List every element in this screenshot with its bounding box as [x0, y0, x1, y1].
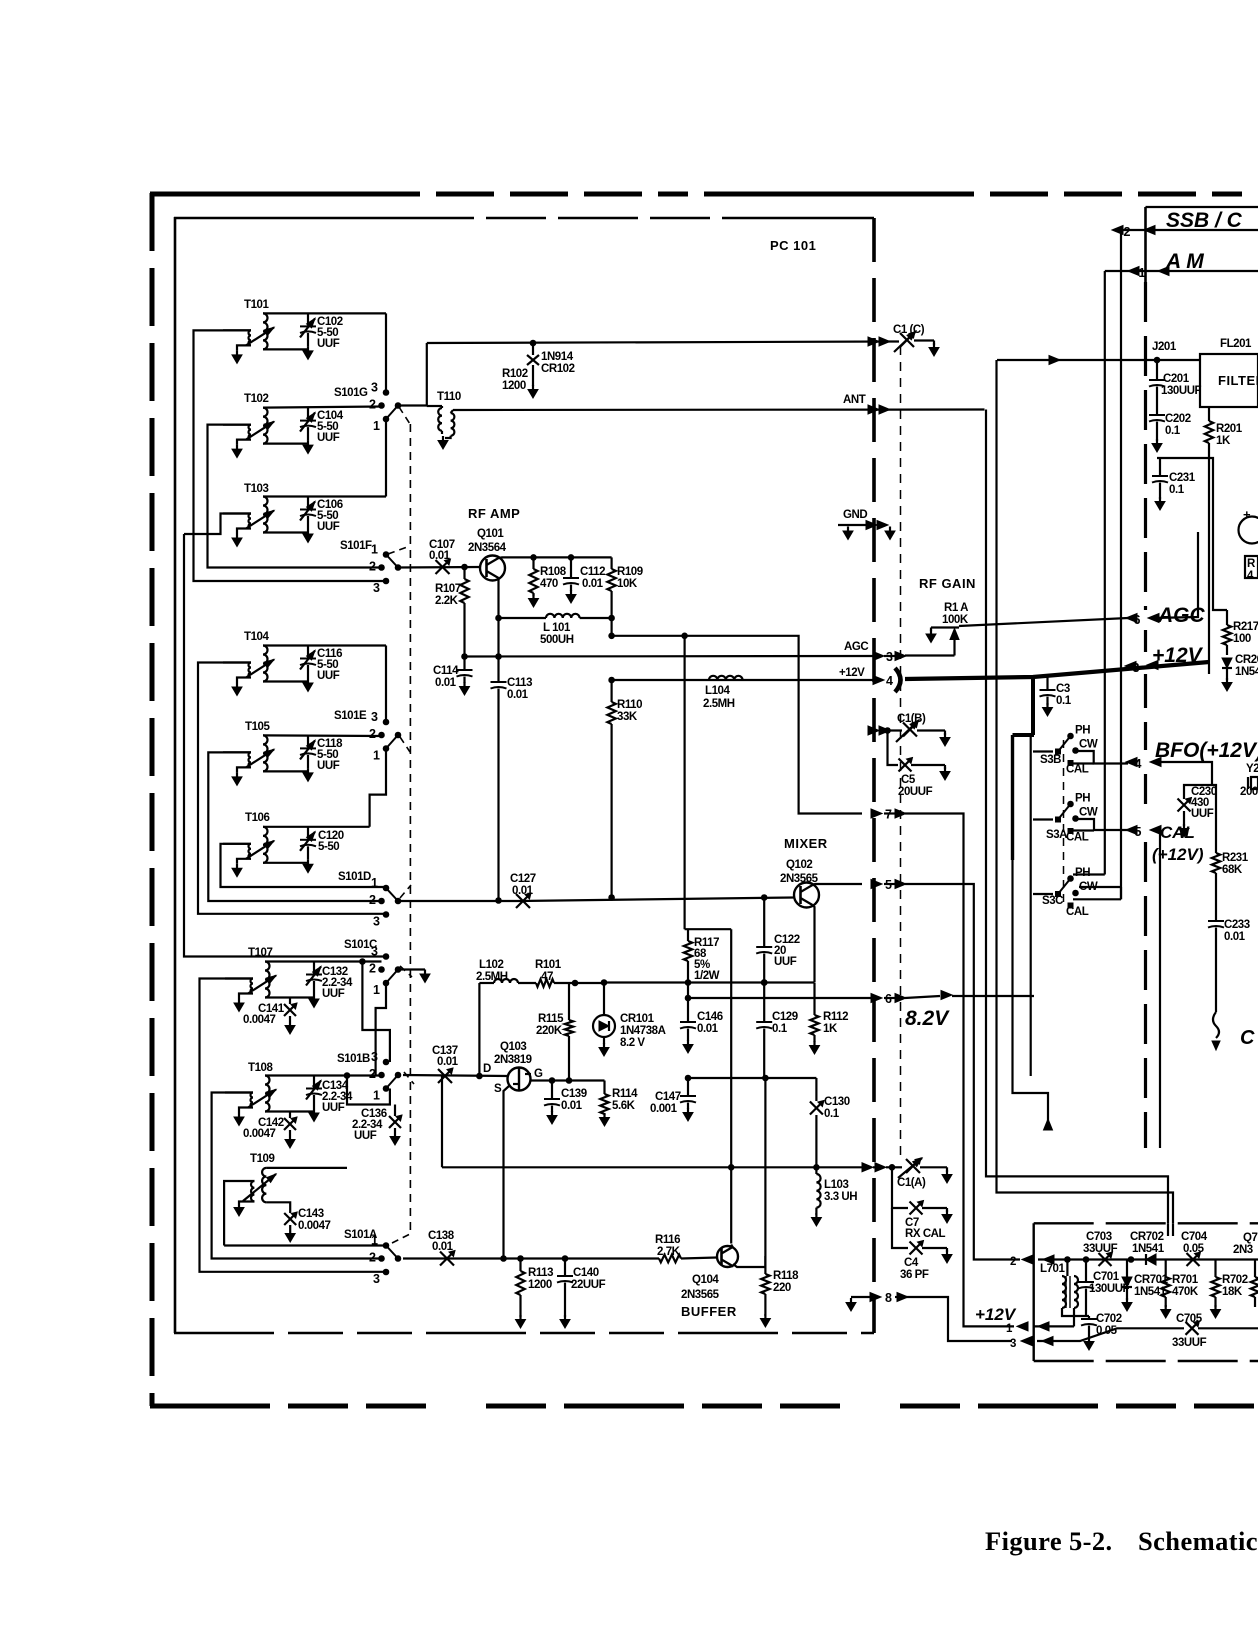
resistor R118	[761, 1274, 769, 1294]
wire T107 primary feed	[200, 979, 387, 1272]
switch S101C	[383, 954, 389, 960]
pin 6	[871, 994, 882, 1003]
wire C7 branch	[892, 1167, 908, 1208]
svg-text:T108: T108	[248, 1062, 273, 1074]
svg-text:0.0047: 0.0047	[243, 1128, 276, 1140]
svg-text:C5: C5	[901, 774, 916, 786]
junction R110 bottom	[609, 895, 615, 901]
svg-text:Q101: Q101	[477, 528, 504, 540]
capacitor C230	[1178, 799, 1191, 812]
transformer T110	[438, 408, 442, 431]
capacitor C231	[1159, 458, 1161, 475]
capacitor C1(B)	[903, 723, 917, 737]
PC200 board border	[1144, 207, 1147, 282]
diode CR101	[603, 983, 605, 1016]
wire CAL right	[1154, 829, 1160, 831]
svg-text:C112: C112	[580, 566, 605, 578]
wire T103 primary feed	[184, 514, 251, 535]
svg-text:FILTER: FILTER	[1218, 373, 1258, 388]
junction R115 top	[572, 980, 578, 986]
pin 8	[870, 1293, 881, 1302]
capacitor C127	[516, 894, 530, 908]
ground T109	[238, 1203, 240, 1208]
svg-text:R115: R115	[538, 1013, 564, 1025]
svg-text:1/2W: 1/2W	[694, 970, 720, 982]
wire T102 top edge to S101G pin2	[263, 407, 382, 408]
svg-text:Y2: Y2	[1246, 763, 1258, 775]
wire mixer tap vertical	[683, 636, 685, 929]
transformer T102	[263, 408, 268, 444]
pin 2 PC700	[1022, 1255, 1033, 1264]
wire C230 node	[1184, 785, 1212, 799]
switch S3B	[1056, 749, 1061, 754]
svg-text:C201: C201	[1163, 373, 1190, 385]
svg-text:L 101: L 101	[543, 622, 571, 634]
capacitor C139	[551, 1081, 553, 1099]
svg-text:CAL: CAL	[1066, 906, 1089, 918]
svg-text:T101: T101	[244, 299, 269, 311]
wire AGC right end	[1152, 532, 1198, 618]
wire T105 top edge to S101E pin2	[263, 734, 382, 737]
junction S lead	[501, 1256, 507, 1262]
svg-text:0.0047: 0.0047	[243, 1014, 276, 1026]
junction CR101 top	[601, 980, 607, 986]
svg-text:A M: A M	[1165, 250, 1204, 273]
svg-text:T110: T110	[437, 391, 461, 403]
capacitor C1(C)	[900, 333, 914, 347]
wire pin5 to PC700 pin2	[905, 884, 1020, 1260]
junction C122 bottom	[761, 980, 767, 986]
svg-text:C1(A): C1(A)	[897, 1177, 926, 1189]
wire T109 feed	[224, 1244, 386, 1246]
svg-text:R231: R231	[1222, 852, 1249, 864]
svg-text:33UUF: 33UUF	[1172, 1337, 1207, 1349]
inductor L104	[709, 676, 743, 680]
wire BFO right	[1154, 762, 1212, 785]
svg-text:4: 4	[1247, 570, 1254, 582]
svg-text:C114: C114	[433, 665, 459, 677]
capacitor C138	[440, 1252, 454, 1266]
mech link S101C	[400, 966, 412, 977]
junction L701	[1065, 1257, 1071, 1263]
junction Q104 collector	[728, 1165, 734, 1171]
svg-text:3: 3	[371, 381, 378, 395]
mech link S101B	[404, 1072, 414, 1084]
inductor L102	[494, 979, 518, 983]
junction D	[477, 1073, 483, 1079]
transformer T103	[263, 497, 268, 533]
pin 5	[871, 880, 882, 889]
capacitor C5	[888, 731, 899, 766]
wire 8.2V rail	[688, 997, 873, 999]
svg-text:UUF: UUF	[317, 670, 340, 682]
svg-text:+12V: +12V	[1152, 644, 1204, 667]
wire pin8 stub	[851, 1296, 873, 1298]
wire R231 top	[1212, 785, 1216, 853]
wire pin2 row	[1038, 1258, 1258, 1260]
svg-text:470K: 470K	[1172, 1286, 1199, 1298]
junction L101 left	[496, 615, 502, 621]
wire filter vertical	[997, 360, 1174, 1223]
switch S101G	[383, 390, 389, 396]
junction C1C R102	[530, 340, 536, 346]
wire C4 branch	[892, 1208, 908, 1248]
wire pin1 row	[1033, 1325, 1074, 1327]
svg-text:Q104: Q104	[692, 1274, 719, 1286]
svg-text:2.5MH: 2.5MH	[476, 971, 508, 983]
wire S101A common row	[403, 1257, 659, 1259]
outer dashed border top	[150, 192, 1258, 197]
wire C129 to box	[731, 1077, 816, 1079]
capacitor C702	[1088, 1316, 1090, 1318]
filter FL201 box	[1200, 354, 1258, 407]
pin 1 PC700	[1017, 1322, 1028, 1331]
svg-text:CAL: CAL	[1160, 823, 1195, 842]
transistor Q104	[717, 1246, 738, 1267]
svg-text:200: 200	[1240, 786, 1258, 798]
squiggle	[1213, 1012, 1219, 1038]
resistor R701	[1165, 1260, 1167, 1278]
svg-text:2N3819: 2N3819	[494, 1054, 532, 1066]
svg-text:C702: C702	[1096, 1313, 1122, 1325]
pin 7	[871, 809, 882, 818]
svg-text:SSB / C: SSB / C	[1166, 209, 1243, 232]
svg-text:Q102: Q102	[786, 859, 812, 871]
wire Q102 collector to pin5	[813, 884, 863, 885]
pin C1A	[862, 1163, 873, 1172]
svg-text:C704: C704	[1181, 1231, 1208, 1243]
wire T101 secondary to S101G pin3	[385, 313, 387, 393]
svg-text:R116: R116	[655, 1234, 680, 1246]
diode CR702	[1146, 1254, 1156, 1265]
svg-text:68K: 68K	[1222, 864, 1243, 876]
diode CR20x	[1222, 658, 1232, 668]
junction +12V R109	[609, 677, 615, 683]
wire L102 branch	[478, 983, 480, 1076]
svg-text:UUF: UUF	[322, 988, 345, 1000]
svg-text:8.2V: 8.2V	[905, 1007, 950, 1030]
wire C1A left drop	[441, 1076, 443, 1167]
svg-text:R108: R108	[540, 566, 567, 578]
svg-text:C231: C231	[1169, 472, 1196, 484]
junction CR702 left	[1128, 1257, 1134, 1263]
svg-text:18K: 18K	[1222, 1286, 1243, 1298]
resistor R201	[1205, 421, 1213, 443]
junction R115 bottom	[566, 1078, 572, 1084]
svg-text:UUF: UUF	[354, 1130, 377, 1142]
pin 3 PC700	[1021, 1337, 1032, 1346]
svg-text:1: 1	[373, 983, 380, 997]
svg-text:BFO(+12V): BFO(+12V)	[1155, 739, 1258, 762]
svg-text:0.001: 0.001	[650, 1103, 678, 1115]
svg-text:PC 101: PC 101	[770, 238, 816, 253]
svg-text:2.5MH: 2.5MH	[703, 698, 735, 710]
switch S101A	[383, 1243, 389, 1249]
resistor R702	[1214, 1260, 1216, 1278]
capacitor C704	[1187, 1253, 1200, 1266]
svg-text:S: S	[494, 1083, 502, 1095]
transistor Q201 partial	[1239, 517, 1258, 544]
svg-text:47: 47	[541, 971, 553, 983]
wire AGC rail	[465, 655, 874, 658]
svg-text:0.01: 0.01	[432, 1241, 454, 1253]
svg-text:MIXER: MIXER	[784, 836, 828, 851]
gang linkage S101	[409, 424, 411, 1232]
svg-text:3: 3	[1133, 661, 1140, 675]
svg-text:R110: R110	[617, 699, 642, 711]
svg-text:L103: L103	[824, 1179, 848, 1191]
svg-text:3: 3	[371, 1050, 378, 1064]
svg-text:0.01: 0.01	[697, 1023, 719, 1035]
pin 6 AGC right	[1126, 614, 1137, 623]
junction C113 bottom	[496, 898, 502, 904]
pin 4 BFO	[1126, 758, 1137, 767]
svg-text:5.6K: 5.6K	[612, 1100, 636, 1112]
mech link S101E	[400, 737, 410, 752]
svg-text:2.7K: 2.7K	[657, 1246, 681, 1258]
wire left daisy vertical	[184, 534, 386, 957]
svg-text:S101A: S101A	[344, 1229, 377, 1241]
wire filter out	[1208, 407, 1210, 421]
transformer T109 coil	[262, 1168, 266, 1202]
resistor R116	[659, 1255, 681, 1263]
resistor R107	[463, 567, 465, 579]
svg-text:3: 3	[373, 581, 380, 595]
wire T110 bottoms	[441, 431, 443, 434]
svg-text:R201: R201	[1216, 423, 1243, 435]
wire S101B common to Q103	[403, 1075, 508, 1076]
bracket SSB	[1146, 206, 1258, 208]
wire S101F common to Q101 base	[398, 566, 480, 569]
capacitor C147	[687, 1078, 689, 1095]
svg-text:L102: L102	[479, 959, 503, 971]
ground T110	[442, 436, 444, 441]
svg-text:UUF: UUF	[317, 760, 340, 772]
capacitor C3	[1046, 677, 1048, 689]
svg-text:C701: C701	[1093, 1271, 1120, 1283]
svg-text:S101F: S101F	[340, 540, 372, 552]
svg-text:D: D	[483, 1063, 491, 1075]
svg-text:0.01: 0.01	[429, 550, 451, 562]
svg-text:0.1: 0.1	[1056, 695, 1072, 707]
wire T109 secondary bottom	[266, 1202, 290, 1213]
svg-text:T103: T103	[244, 483, 268, 495]
svg-text:L104: L104	[705, 685, 730, 697]
junction R113 top	[518, 1256, 524, 1262]
capacitor C143	[284, 1213, 296, 1225]
svg-text:ANT: ANT	[843, 394, 866, 406]
svg-text:C3: C3	[1056, 683, 1070, 695]
svg-text:C4: C4	[904, 1257, 919, 1269]
junction R118 rail	[763, 1075, 769, 1081]
svg-text:3: 3	[373, 1272, 380, 1286]
svg-text:GND: GND	[843, 509, 867, 521]
arrow 8.2V out	[905, 996, 940, 998]
svg-text:3: 3	[371, 710, 378, 724]
capacitor C113	[497, 657, 499, 682]
capacitor C201	[1156, 360, 1158, 379]
outer dashed border bottom	[150, 1404, 1258, 1409]
wire S101G common to T110	[398, 343, 427, 406]
diode CR102 and resistor R102	[532, 343, 534, 355]
svg-text:22UUF: 22UUF	[571, 1279, 606, 1291]
svg-text:1N4738A: 1N4738A	[620, 1025, 666, 1037]
pin C1B arrows	[868, 726, 879, 735]
wire AGC to section	[959, 618, 1128, 626]
svg-text:C130: C130	[824, 1096, 850, 1108]
capacitor C141	[289, 998, 291, 1005]
svg-text:2N3564: 2N3564	[468, 542, 507, 554]
transistor Q101	[480, 556, 505, 581]
capacitor C142	[289, 1112, 291, 1119]
svg-text:T104: T104	[244, 631, 269, 643]
junction C201	[1154, 357, 1160, 363]
svg-text:1N541: 1N541	[1132, 1243, 1165, 1255]
junction R107 top	[462, 564, 468, 570]
wire T110 primary top	[427, 405, 442, 407]
svg-text:5: 5	[1135, 825, 1142, 839]
junction L103 top	[814, 1165, 820, 1171]
capacitor C114	[463, 657, 465, 670]
pin 3 +12V right	[1125, 662, 1136, 671]
svg-text:0.01: 0.01	[435, 677, 457, 689]
wire S101B pin1 to C136 node	[389, 1089, 391, 1105]
svg-text:8.2 V: 8.2 V	[620, 1037, 645, 1049]
wire +12V branch left	[1013, 733, 1035, 737]
capacitor C233	[1208, 920, 1224, 922]
wire pin6 right	[952, 995, 1034, 997]
inductor L701	[1066, 1260, 1068, 1277]
wire T109 top edge	[266, 1167, 347, 1169]
svg-text:1K: 1K	[823, 1023, 838, 1035]
svg-text:2: 2	[1010, 1256, 1016, 1268]
capacitor C137	[438, 1069, 452, 1083]
pin C1C arrows	[868, 337, 879, 346]
pin GND	[838, 524, 870, 526]
wire pin7 to PC700 pin1	[905, 814, 1014, 1327]
svg-text:470: 470	[540, 578, 558, 590]
wire emitter rail	[604, 981, 815, 983]
arrow injection	[1044, 1119, 1053, 1130]
svg-text:CAL: CAL	[1066, 764, 1089, 776]
wire Q103 source	[504, 1086, 510, 1259]
wire T109 primary gnd lead	[239, 1202, 254, 1204]
svg-text:R101: R101	[535, 959, 562, 971]
junction C114 top	[462, 654, 468, 660]
svg-text:UUF: UUF	[774, 956, 797, 968]
svg-text:36 PF: 36 PF	[900, 1269, 929, 1281]
pin 5 CAL	[1126, 826, 1137, 835]
mech link S101G	[399, 407, 410, 424]
transformer T108	[265, 1076, 270, 1112]
capacitor C202	[1149, 414, 1165, 416]
wire bias rail	[612, 636, 862, 814]
resistor R231	[1212, 853, 1220, 873]
wire +12V thick	[905, 662, 1209, 679]
wire T101 top edge	[263, 312, 386, 314]
transformer T101	[263, 313, 268, 349]
wire pin8 to PC700	[905, 1297, 1012, 1341]
mech link S101A	[392, 1233, 412, 1243]
svg-text:0.01: 0.01	[582, 578, 604, 590]
pin 1 AM	[1128, 267, 1139, 276]
svg-text:Q103: Q103	[500, 1041, 526, 1053]
svg-text:33UUF: 33UUF	[1083, 1243, 1118, 1255]
wire emitter drop R118	[764, 1078, 766, 1274]
svg-text:20UUF: 20UUF	[898, 786, 933, 798]
junction bias rail	[609, 633, 615, 639]
svg-text:0.01: 0.01	[507, 689, 529, 701]
svg-text:R113: R113	[528, 1267, 553, 1279]
wire mixer base rail	[398, 900, 520, 902]
wire +12V injection drop	[1011, 735, 1014, 860]
svg-text:0.1: 0.1	[1169, 484, 1185, 496]
svg-text:33K: 33K	[617, 711, 638, 723]
svg-text:R1 A: R1 A	[944, 602, 968, 614]
svg-text:0.01: 0.01	[437, 1056, 459, 1068]
svg-text:1N914: 1N914	[541, 351, 574, 363]
svg-text:Q7: Q7	[1243, 1232, 1257, 1244]
svg-text:G: G	[534, 1068, 543, 1080]
wire Q104 emitter	[733, 1256, 765, 1267]
inductor L103	[815, 1167, 817, 1174]
transformer T106	[263, 827, 268, 863]
svg-text:RF AMP: RF AMP	[468, 506, 520, 521]
capacitor C122	[763, 898, 765, 947]
wire feeds into PC700	[1167, 1223, 1169, 1236]
svg-text:PH: PH	[1075, 793, 1090, 805]
svg-text:UUF: UUF	[322, 1102, 345, 1114]
svg-text:FL201: FL201	[1220, 338, 1252, 350]
svg-text:0.1: 0.1	[824, 1108, 840, 1120]
svg-text:2: 2	[369, 1067, 376, 1081]
svg-text:S101G: S101G	[334, 387, 368, 399]
svg-text:AGC: AGC	[844, 641, 868, 653]
svg-text:+: +	[1243, 507, 1251, 522]
svg-text:2: 2	[369, 398, 376, 412]
svg-text:1: 1	[373, 749, 380, 763]
junction 8.2V	[685, 995, 691, 1001]
svg-text:S101B: S101B	[337, 1053, 370, 1065]
gang linkage S3	[1063, 740, 1065, 905]
transistor Q103	[508, 1068, 531, 1091]
wire +12V branch S3	[1031, 677, 1035, 735]
svg-text:3: 3	[373, 915, 380, 929]
svg-text:S101C: S101C	[344, 939, 377, 951]
capacitor C112	[568, 555, 574, 561]
junction C122 top	[761, 895, 767, 901]
svg-text:2: 2	[1124, 225, 1131, 239]
svg-text:100: 100	[1233, 633, 1251, 645]
svg-text:C705: C705	[1176, 1313, 1203, 1325]
wire AM vertical to S3C PH	[1104, 271, 1106, 875]
svg-text:8: 8	[885, 1291, 892, 1305]
wire T102 primary feed	[208, 425, 382, 568]
wire S3 bank feed	[1030, 737, 1032, 1076]
transformer T107	[265, 962, 270, 998]
svg-text:UUF: UUF	[317, 432, 340, 444]
svg-text:220K: 220K	[536, 1025, 563, 1037]
pin 4 +12V	[873, 676, 884, 685]
svg-text:R217: R217	[1233, 621, 1258, 633]
svg-text:C113: C113	[507, 677, 532, 689]
svg-text:C703: C703	[1086, 1231, 1112, 1243]
capacitor C136	[347, 1076, 391, 1105]
junction C1A	[889, 1165, 895, 1171]
svg-text:C202: C202	[1165, 413, 1191, 425]
svg-text:1K: 1K	[1216, 435, 1231, 447]
resistor R109	[610, 557, 612, 569]
